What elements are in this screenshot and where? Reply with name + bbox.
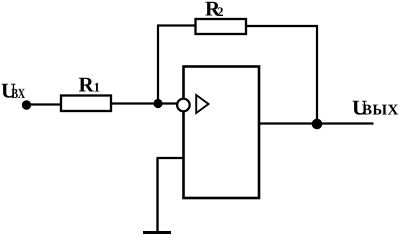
- op-amp triangle symbol: [196, 95, 208, 113]
- node input terminal: [22, 100, 31, 109]
- label Uвх: [1, 79, 25, 103]
- ground: [143, 231, 171, 234]
- wire non-inverting input stub: [157, 157, 184, 159]
- node output: [312, 119, 323, 130]
- label Uвых: [352, 96, 399, 120]
- resistor R1: [61, 96, 111, 112]
- svg-text:1: 1: [94, 80, 101, 95]
- svg-text:ВХ: ВХ: [11, 87, 25, 102]
- op-amp U1 body: [184, 67, 260, 199]
- svg-text:R: R: [79, 73, 95, 97]
- wire output: [259, 122, 374, 124]
- wire feedback right vertical: [316, 26, 318, 124]
- resistor R2: [196, 19, 247, 34]
- label R1: [79, 73, 101, 97]
- wire R1 to junction: [111, 102, 158, 104]
- wire feedback left vertical: [157, 26, 159, 104]
- op-amp inverting input bubble: [177, 99, 190, 112]
- svg-text:2: 2: [217, 4, 224, 19]
- svg-text:ВЫХ: ВЫХ: [362, 103, 399, 119]
- wire R2 to right vertical: [246, 25, 318, 27]
- node junction (inverting input): [153, 99, 162, 108]
- wire top left to R2: [157, 24, 196, 26]
- wire input to R1: [26, 103, 61, 105]
- label R2: [205, 0, 224, 21]
- wire junction to bubble: [158, 102, 178, 104]
- wire ground vertical: [156, 158, 158, 232]
